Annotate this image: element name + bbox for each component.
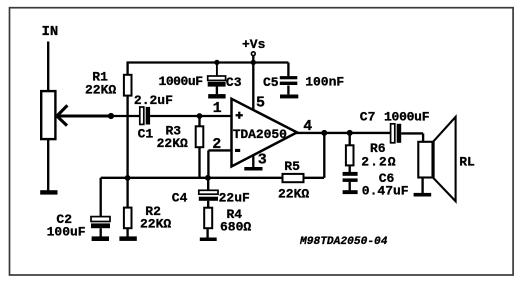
- node junction dot pin2/C4: [205, 175, 211, 181]
- wire IN to potentiometer: [47, 42, 49, 93]
- resistor R5 22K feedback: [283, 133, 325, 182]
- svg-text:680Ω: 680Ω: [220, 219, 251, 234]
- pin - mark: [235, 149, 240, 152]
- wire speaker to ground: [421, 178, 423, 194]
- resistor R1 22K: [124, 63, 132, 96]
- svg-text:1000uF: 1000uF: [384, 110, 430, 125]
- wire +Vs down to pin 5: [252, 56, 254, 111]
- ground (potentiometer): [40, 190, 57, 194]
- svg-text:1000uF: 1000uF: [159, 74, 204, 89]
- svg-text:22KΩ: 22KΩ: [140, 217, 171, 232]
- svg-text:22KΩ: 22KΩ: [278, 186, 309, 201]
- wire output pin 4: [295, 132, 391, 134]
- svg-text:3: 3: [258, 152, 267, 169]
- pin + mark: [236, 114, 243, 116]
- svg-text:C4: C4: [172, 190, 188, 205]
- resistor R6 2.2 zobel: [346, 133, 354, 172]
- pin 3 stub and label: [252, 156, 254, 167]
- speaker RL body: [418, 142, 432, 178]
- svg-text:2.2Ω: 2.2Ω: [361, 155, 395, 170]
- svg-text:R5: R5: [284, 159, 300, 174]
- svg-text:1: 1: [213, 100, 222, 117]
- node junction dot C3: [214, 60, 219, 65]
- op-amp U1 TDA2050 triangle: [232, 99, 298, 167]
- capacitor C1 2.2uF: [140, 107, 150, 125]
- node junction dot +Vs rail: [251, 60, 256, 65]
- ground (C2): [92, 236, 109, 241]
- ground (R4): [200, 238, 217, 242]
- svg-text:M98TDA2050-04: M98TDA2050-04: [299, 236, 388, 248]
- wire main to C1: [111, 115, 140, 117]
- wire R1 bottom crossing main down to rail: [126, 95, 128, 178]
- resistor R2 22K: [124, 178, 132, 237]
- resistor R3 22K: [196, 116, 204, 178]
- ground (speaker): [414, 193, 432, 197]
- capacitor C4 22uF: [199, 178, 218, 208]
- ground (C5): [280, 95, 298, 99]
- node junction dot R2 rail: [125, 175, 131, 181]
- svg-text:C5: C5: [263, 75, 279, 90]
- svg-text:100nF: 100nF: [305, 74, 344, 89]
- svg-text:RL: RL: [459, 155, 475, 170]
- potentiometer wiper arrow: [57, 105, 111, 125]
- capacitor C7 1000uF: [391, 124, 402, 143]
- wire pin 2 to rail: [208, 150, 231, 177]
- capacitor C2 100uF: [91, 178, 110, 237]
- svg-text:C7: C7: [360, 110, 376, 125]
- capacitor C6 0.47uF zobel: [343, 172, 358, 191]
- svg-text:C3: C3: [226, 75, 242, 90]
- speaker cone: [434, 117, 456, 201]
- wire bottom rail C2 to R5: [101, 177, 283, 179]
- wire C7 to speaker: [401, 133, 423, 142]
- ground (C3): [208, 94, 225, 98]
- svg-text:5: 5: [256, 94, 265, 111]
- wire +Vs top rail: [127, 61, 289, 63]
- node junction dot wiper/main: [108, 113, 114, 119]
- svg-text:22uF: 22uF: [219, 190, 250, 205]
- node junction dot R6: [347, 130, 353, 136]
- svg-text:100uF: 100uF: [47, 224, 86, 239]
- ground (C6): [343, 190, 358, 194]
- svg-text:IN: IN: [42, 24, 59, 40]
- svg-text:22KΩ: 22KΩ: [157, 136, 188, 151]
- capacitor C5 100nF: [280, 63, 298, 95]
- potentiometer P1 body: [41, 91, 55, 139]
- svg-text:+Vs: +Vs: [242, 37, 266, 52]
- ground (R2): [119, 236, 136, 241]
- capacitor C3 1000uF: [208, 63, 226, 95]
- resistor R4 680: [204, 208, 212, 238]
- svg-text:2.2uF: 2.2uF: [134, 93, 173, 108]
- wire C1 to pin1: [150, 115, 231, 117]
- node junction dot R3 top: [197, 113, 203, 119]
- wire potentiometer bottom: [47, 140, 49, 191]
- svg-text:TDA2050: TDA2050: [233, 127, 287, 142]
- svg-text:0.47uF: 0.47uF: [362, 184, 409, 199]
- svg-text:22KΩ: 22KΩ: [85, 82, 116, 97]
- svg-text:C1: C1: [138, 126, 154, 141]
- ground (pin 3): [244, 167, 262, 171]
- node junction dot feedback: [321, 130, 327, 136]
